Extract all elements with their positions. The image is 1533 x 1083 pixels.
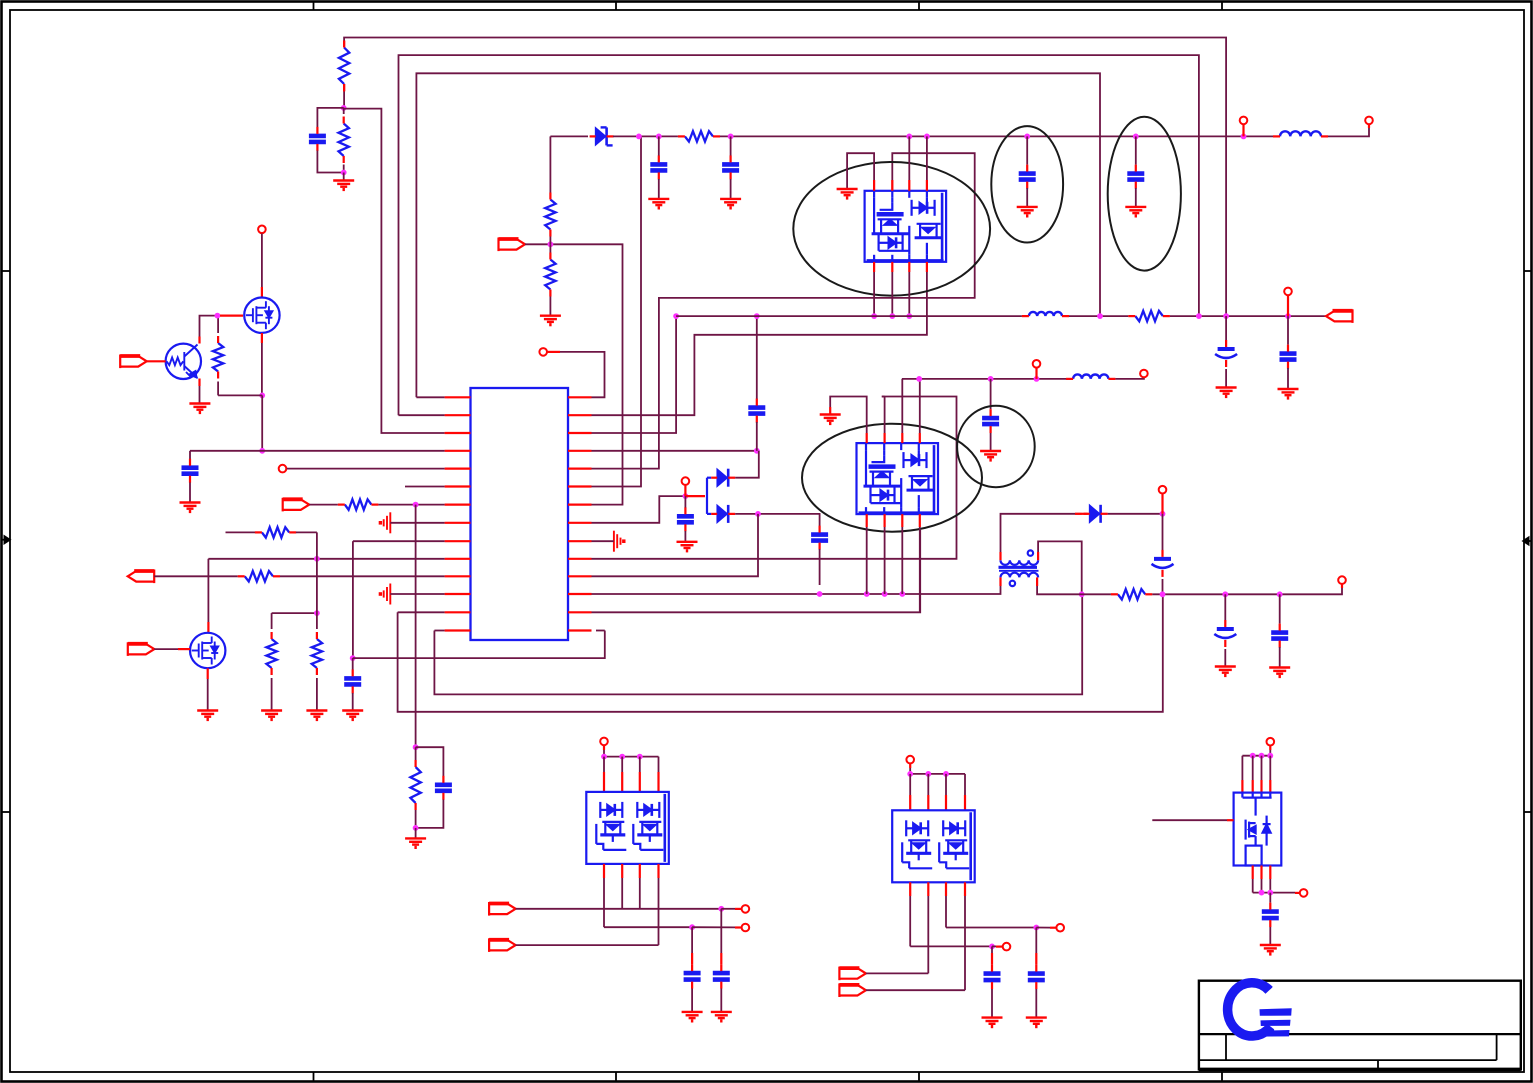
wire J5 — [525, 243, 550, 245]
wire B1 rail — [604, 756, 659, 758]
capacitor C10 — [677, 516, 694, 522]
junction pin4 branch — [259, 448, 265, 454]
wire C19 top — [720, 909, 722, 953]
ground G14 — [677, 542, 698, 551]
capacitor C2 — [182, 468, 199, 474]
wire T10 stub — [1161, 494, 1163, 514]
wire pk1 b2 — [884, 527, 886, 594]
connector J1 — [120, 355, 147, 369]
wire C22 gnd — [1269, 927, 1271, 945]
wire pk0 p4 — [926, 136, 928, 180]
wire loop B — [399, 55, 1199, 415]
wire R7 top — [271, 613, 273, 629]
wire rail379 — [902, 378, 1067, 380]
junction pk1b1 — [864, 591, 870, 597]
wire D3 out — [735, 514, 819, 526]
wire pk1 b1 stub — [866, 514, 868, 527]
junction sec rail a — [1079, 591, 1085, 597]
frame right center arrow — [1526, 540, 1532, 542]
wire pin11 b — [280, 575, 445, 577]
wire divider cap bottom — [317, 151, 343, 173]
wire Q2 emitter — [199, 386, 201, 403]
wire C19 red — [720, 953, 722, 964]
wire L1 out — [1328, 128, 1369, 136]
junction D1a — [636, 134, 642, 140]
ground G2 — [189, 404, 210, 413]
wire pin7 vertical — [415, 505, 417, 748]
wire C22 top — [1269, 893, 1271, 903]
terminal T1 — [258, 226, 266, 234]
terminal T3 — [539, 348, 547, 356]
wire T8 stub — [1035, 368, 1037, 379]
wire B3 gate — [1152, 819, 1227, 821]
capacitor C16 — [1217, 627, 1234, 631]
wire prim right — [1038, 541, 1082, 594]
wire R2 top — [343, 108, 345, 114]
wire top rail — [550, 135, 588, 137]
ground G16 — [1216, 388, 1237, 397]
wire pin6r — [592, 136, 642, 486]
wire pk1 b3 stub — [901, 514, 903, 527]
wire Q1S down — [261, 395, 263, 450]
wire B1 gate2 — [516, 944, 659, 946]
wire loop A stub2 — [343, 41, 345, 48]
terminal T19 — [1300, 889, 1308, 897]
terminal T10 — [1159, 486, 1167, 494]
wire pin1 lead — [416, 396, 444, 398]
resistor R7 — [266, 639, 276, 668]
wire D4 stub a — [1075, 513, 1088, 515]
wire pin2r — [592, 262, 927, 415]
wire C19 gnd — [720, 989, 722, 1012]
wire B3 tp1261.5 — [1261, 756, 1263, 780]
wire pk0 p4 stub — [926, 180, 928, 191]
wire pk1 p3 — [901, 379, 903, 433]
wire pk1 gnd stub — [829, 407, 831, 415]
wire B2 tp946 — [945, 774, 947, 795]
wire T6 stub — [684, 485, 686, 496]
junction out c — [1277, 591, 1283, 597]
junction rail316 L — [673, 313, 679, 319]
junction B3 a — [1259, 890, 1265, 896]
wire R9b top — [549, 244, 551, 252]
wire under-IC rail — [353, 631, 605, 659]
terminal T5 — [1365, 117, 1373, 125]
transistor Q2 — [167, 345, 198, 379]
wire pk0 p1 gnd — [847, 153, 874, 188]
wire pk0 p1 stub — [873, 180, 875, 191]
ground G24 — [982, 1018, 1003, 1027]
wire B2 bp965 — [964, 882, 966, 896]
wire pin14 wrap — [434, 594, 1082, 694]
wire pin10 vertical — [207, 559, 209, 622]
junction B1 t622.2 — [619, 754, 625, 760]
junction R10r — [728, 134, 734, 140]
junction gate — [215, 313, 221, 319]
junction C4 top — [350, 655, 356, 661]
terminal T18 — [1267, 738, 1275, 746]
wire pk0 b2 stub — [891, 262, 893, 272]
junction B1 t639.8 — [637, 754, 643, 760]
wire Q3 source — [207, 679, 209, 710]
wire C11 bot — [819, 549, 821, 585]
wire B3 gate stub — [1227, 819, 1234, 821]
wire T19 stub — [1295, 892, 1299, 894]
wire pin13 — [398, 611, 445, 613]
diode D2 — [717, 469, 727, 486]
ground G22 — [682, 1012, 703, 1021]
terminal T17 — [1003, 943, 1011, 951]
junction D3 out — [755, 511, 761, 517]
wire pin9 — [353, 540, 445, 542]
terminal T16 — [1056, 924, 1064, 932]
wire pk1 b4 stub — [919, 514, 921, 527]
junction B2 t928.3 — [925, 771, 931, 777]
wire divider cap branch — [317, 108, 343, 127]
junction B1 w1 — [718, 906, 724, 912]
junction R9 — [548, 241, 554, 247]
wire pk0 p2 stub — [891, 180, 893, 191]
wire C7 top — [730, 136, 732, 155]
resistor R10 — [685, 131, 713, 141]
wire R2 bottom — [343, 165, 345, 173]
resistor R9a — [545, 200, 555, 230]
mosfet pack U3 — [857, 443, 939, 514]
diode D4 — [1090, 505, 1100, 522]
wire RC gnd — [415, 828, 417, 838]
wire J1 stub — [147, 360, 166, 362]
wire B1 bp639.8 — [639, 864, 641, 878]
wire T4 stub — [1242, 125, 1244, 137]
wire B3 topdrop — [1269, 750, 1271, 756]
wire T3 stub — [548, 351, 561, 353]
junction D cluster — [683, 493, 689, 499]
wire pin12r rail — [592, 586, 1001, 594]
ground G4 — [405, 838, 426, 847]
wire C14 top — [990, 379, 992, 409]
junction rail316 d3 — [1285, 313, 1291, 319]
title block — [1199, 981, 1521, 1070]
terminal T8 — [1033, 360, 1041, 368]
junction B3 t1252.7 — [1250, 753, 1256, 759]
wire C13 gnd — [1287, 368, 1289, 389]
resistor R12 — [1118, 589, 1145, 599]
capacitor C21 — [1028, 974, 1045, 981]
connector J8 — [489, 938, 515, 952]
wire B1 bp604 — [603, 864, 605, 878]
connector J10 — [839, 983, 866, 997]
resistor R4 — [345, 499, 372, 509]
wire C2 gnd — [189, 483, 191, 503]
wire pin9r — [592, 540, 614, 542]
connector J6 — [1326, 309, 1353, 323]
wire C12 gnd — [1225, 369, 1227, 387]
ground G9 — [540, 316, 561, 325]
junction C5 rail — [754, 313, 760, 319]
wire Q1 source stub — [261, 333, 263, 343]
wire B3 bp1261.5 — [1260, 866, 1262, 880]
wire pk0 p3 — [908, 136, 910, 180]
wire R9a bot — [549, 237, 551, 245]
wire pk1 p1 — [830, 397, 867, 434]
ground G21 — [1269, 668, 1290, 677]
junction out b — [1222, 591, 1228, 597]
capacitor C11 — [811, 535, 828, 541]
wire pin9 vertical — [352, 541, 354, 658]
wire C9 top — [1135, 136, 1137, 164]
wire B2 topdrop — [909, 768, 911, 774]
wire Q3 top stub — [207, 622, 209, 633]
junction L2r — [1097, 313, 1103, 319]
wire C6 gnd — [658, 179, 660, 198]
wire B3 tp1242.4 — [1241, 756, 1243, 780]
mosfet pack U2 — [865, 191, 947, 262]
wire T5 stub — [1368, 125, 1370, 129]
connector J9 — [839, 967, 866, 981]
chassis ground CG1 — [380, 512, 390, 533]
wire B1 topdrop — [603, 750, 605, 757]
resistor R1 — [339, 48, 349, 85]
junction R8 mid — [314, 610, 320, 616]
diode D3 — [717, 505, 727, 522]
wire C14 gnd — [990, 433, 992, 450]
logo — [1226, 980, 1273, 1038]
wire B3 bp1270.3 — [1269, 866, 1271, 880]
wire pk0 b3 stub — [908, 262, 910, 272]
junction B1 t604 — [601, 754, 607, 760]
wire C17 top — [1279, 594, 1281, 623]
ground G18 — [820, 415, 841, 424]
junction rail316 d2 — [1223, 313, 1229, 319]
wire C21 top — [1035, 928, 1037, 954]
wire pin13 wrap — [398, 594, 1163, 712]
wire B1 tp639.8 — [639, 757, 641, 772]
wire pin7r — [550, 244, 622, 504]
wire C20 red — [991, 953, 993, 965]
capacitor C12 — [1218, 347, 1235, 351]
junction T4 — [1241, 134, 1247, 140]
wire top rail c — [720, 135, 1273, 137]
junction D4 out — [1160, 511, 1166, 517]
terminal T2 — [279, 465, 287, 473]
wire pk1 p3 stub — [901, 433, 903, 443]
connector J4 — [128, 570, 155, 584]
resistor R3 — [213, 343, 223, 372]
wire prim left — [1001, 514, 1082, 552]
capacitor C15 — [1154, 557, 1171, 561]
ground G17 — [1278, 389, 1299, 398]
wire pin10r — [592, 397, 957, 559]
junction rail379 b — [988, 376, 994, 382]
wire R8 top b — [296, 531, 317, 533]
wire B1 src1 — [604, 926, 692, 928]
junction pin10 — [314, 556, 320, 562]
junction RC top — [413, 744, 419, 750]
wire anode stub — [685, 495, 705, 497]
wire pin11r — [592, 514, 759, 576]
ground G11 — [720, 199, 741, 208]
transistor Q2 circle — [166, 344, 201, 379]
wire R9a top — [549, 136, 551, 192]
wire B2 bp910.2 — [909, 882, 911, 896]
junction C8 top — [1024, 134, 1030, 140]
diode D1 — [596, 128, 606, 145]
ground G15 — [837, 189, 858, 198]
wire pk1 b1 — [866, 527, 868, 594]
connector J5 — [499, 238, 526, 252]
wire C20 gnd — [991, 989, 993, 1017]
wire pin3 net — [344, 109, 445, 433]
wire R5 bot — [415, 810, 417, 828]
wire pk1 p2 stub — [883, 433, 885, 443]
wire B2 tp910.2 — [909, 774, 911, 795]
capacitor C1 — [309, 136, 326, 142]
junction B2 wB — [989, 944, 995, 950]
capacitor C14 — [982, 418, 999, 424]
wire C7 gnd — [730, 179, 732, 198]
wire B3 bp1252.7 — [1252, 866, 1254, 880]
wire pk1 b3 — [901, 527, 903, 594]
mosfet pack U6 — [1234, 793, 1282, 866]
wire C16 top — [1224, 594, 1226, 620]
wire J3 — [154, 648, 178, 650]
wire pin7 b — [378, 504, 444, 506]
wire C21 red — [1035, 953, 1037, 965]
wire R3 bot lead — [217, 382, 219, 396]
wire B3 rail — [1242, 755, 1270, 757]
junction pin4r — [754, 448, 760, 454]
wire sec right rail — [1037, 586, 1111, 594]
wire C21 gnd — [1035, 989, 1037, 1017]
wire pk0 p3 stub — [908, 180, 910, 191]
wire R7 link — [272, 612, 317, 614]
junction B3 t1270.3 — [1267, 753, 1273, 759]
wire B1 tp622.2 — [621, 757, 623, 772]
wire C15 bot — [1162, 579, 1164, 594]
wire T18 stub — [1269, 746, 1271, 750]
junction A1 — [341, 105, 347, 111]
wire R9b gnd — [549, 297, 551, 316]
wire J3 stub — [178, 648, 190, 650]
wire B1 tp658.5 — [658, 757, 660, 772]
wire T16 stub — [1036, 927, 1050, 929]
wire T1 to Q1 — [261, 234, 263, 288]
capacitor C18 — [684, 973, 701, 980]
wire gate stub — [220, 315, 243, 317]
wire C13 top — [1287, 316, 1289, 344]
wire Q2 emitter stub — [198, 379, 200, 387]
wire B2 tp928.3 — [927, 774, 929, 795]
wire pk0 b3 — [908, 272, 910, 316]
wire R7 gnd — [271, 678, 273, 710]
wire anode b — [707, 513, 711, 515]
junction C9 top — [1133, 134, 1139, 140]
wire B1 gate1 — [516, 908, 722, 910]
wire rail316 a — [676, 315, 1022, 317]
wire Q1 drain stub — [261, 287, 263, 298]
capacitor C6 — [650, 164, 667, 170]
junction B2 wA — [1033, 925, 1039, 931]
wire B1 tp604 — [603, 757, 605, 772]
ellipse E4 — [802, 424, 982, 532]
ground G10 — [648, 199, 669, 208]
wire pk0 b1 stub — [873, 262, 875, 272]
ground G19 — [980, 451, 1001, 460]
ellipse E3 — [1108, 117, 1181, 271]
wire R8 gnd — [316, 678, 318, 710]
ground G7 — [261, 711, 282, 720]
wire pin4r — [592, 450, 757, 452]
wire B2 bp946 — [945, 882, 947, 896]
connector J3 — [128, 642, 155, 656]
wire B3 tp1270.3 — [1269, 756, 1271, 780]
wire pk1 p2 — [884, 397, 886, 434]
wire pin4 — [190, 450, 445, 452]
frame left center arrow — [2, 539, 7, 541]
wire pin3r — [592, 316, 677, 433]
terminal T11 — [1338, 576, 1346, 584]
wire D2 out — [735, 451, 759, 478]
wire pk1 p4 — [919, 379, 921, 433]
wire B2 srcB — [910, 945, 992, 947]
capacitor C3 — [435, 785, 452, 791]
junction C11 top — [817, 591, 823, 597]
wire B1 bp622.2 — [621, 864, 623, 878]
wire C18 red — [691, 953, 693, 964]
ground G13 — [1125, 207, 1146, 216]
wire pin8 — [390, 522, 444, 524]
wire pin4 cap — [189, 451, 191, 459]
junction B3 b — [1267, 890, 1273, 896]
wire pk0 b1 — [873, 272, 875, 316]
junction D1b — [656, 134, 662, 140]
wire R3 top — [217, 316, 219, 333]
wire pin13r — [592, 530, 921, 612]
wire C16 gnd — [1224, 649, 1226, 666]
capacitor C9 — [1127, 174, 1144, 180]
wire T12 stub — [603, 746, 605, 750]
resistor R2 — [339, 124, 349, 157]
junction RC bot — [413, 825, 419, 831]
ground G26 — [1260, 945, 1281, 954]
wire pin6 stub — [405, 486, 445, 488]
resistor R11 — [1135, 311, 1163, 321]
wire R5 top — [415, 747, 417, 760]
wire B2 srcA — [946, 927, 1036, 929]
wire C4 gnd — [352, 693, 354, 710]
junction B1 w2 — [689, 924, 695, 930]
wire C5 branch top — [756, 316, 758, 399]
terminal T6 — [682, 477, 690, 485]
wire C4 top — [352, 658, 354, 669]
wire loop A stub — [343, 84, 345, 92]
wire pk1 p1 stub — [866, 433, 868, 443]
ellipse E2 — [957, 406, 1035, 487]
ellipse E1 — [991, 126, 1063, 242]
transformer TX1 — [999, 550, 1039, 586]
wire C18 gnd — [691, 989, 693, 1012]
ground G5 — [342, 711, 363, 720]
inductor L3 — [1073, 374, 1108, 378]
wire R8 top a — [226, 531, 256, 533]
wire R3 bottom link — [218, 394, 262, 396]
wire B3 tp1252.7 — [1252, 756, 1254, 780]
junction pk0 b3 — [906, 313, 912, 319]
wire pk0 b2 — [891, 272, 893, 316]
wire rail379 d — [1115, 378, 1144, 379]
wire pin14r — [596, 630, 605, 632]
wire B1 bp658.5 — [657, 864, 659, 878]
